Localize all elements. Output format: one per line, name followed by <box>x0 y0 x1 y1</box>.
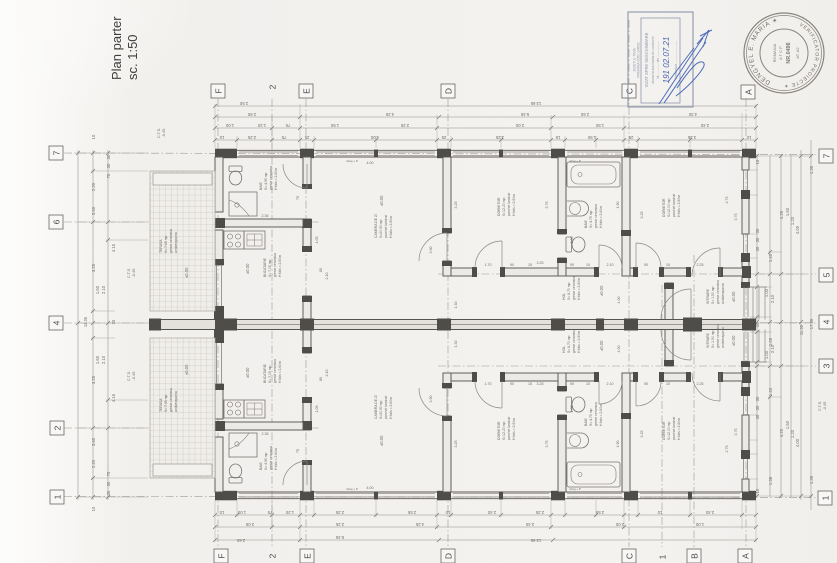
svg-text:2.55: 2.55 <box>407 510 416 515</box>
svg-text:2.25: 2.25 <box>247 135 256 140</box>
svg-text:2.25: 2.25 <box>335 522 344 527</box>
door bath2 <box>599 245 622 268</box>
shower bath1 <box>229 192 257 216</box>
svg-text:2.35: 2.35 <box>262 214 269 218</box>
svg-text:1.30: 1.30 <box>454 302 458 309</box>
svg-text:2: 2 <box>267 84 277 89</box>
svg-text:H fals = 2.60m: H fals = 2.60m <box>278 255 282 277</box>
grid line 1 horizontal <box>64 497 816 498</box>
svg-text:Nr. ............ din .........: Nr. ............ din .................. <box>656 41 660 79</box>
svg-text:gresie ceramica: gresie ceramica <box>594 402 598 426</box>
grid box C top <box>622 84 636 98</box>
svg-text:S= 8.70 mp: S= 8.70 mp <box>567 282 571 300</box>
svg-text:A T C P: A T C P <box>778 46 783 60</box>
wall right exterior <box>741 157 750 288</box>
svg-text:H fals = 2.60m: H fals = 2.60m <box>599 206 603 228</box>
grid label 1 bottom <box>657 554 667 559</box>
interior dimension figures top unit <box>262 159 739 309</box>
title Plan parter <box>109 16 140 80</box>
label dormitor1 bottom <box>497 417 516 440</box>
svg-text:parchet laminat: parchet laminat <box>672 417 676 440</box>
door dormitor1 <box>475 241 502 268</box>
svg-text:10: 10 <box>219 510 224 515</box>
svg-text:10: 10 <box>445 510 450 515</box>
svg-text:antiderapanta: antiderapanta <box>174 391 178 412</box>
svg-text:2.90: 2.90 <box>247 112 256 117</box>
svg-text:10: 10 <box>91 506 96 511</box>
svg-text:2: 2 <box>52 425 62 430</box>
svg-text:-0.45: -0.45 <box>132 372 136 381</box>
svg-text:H fals = 2.60m: H fals = 2.60m <box>677 195 681 217</box>
dimension line top overall <box>215 105 756 107</box>
svg-text:1.70: 1.70 <box>485 382 492 386</box>
svg-text:2.50: 2.50 <box>239 101 248 106</box>
svg-text:Anexa la autorizatia de constr: Anexa la autorizatia de construire <box>651 36 655 84</box>
svg-text:vitraj + P: vitraj + P <box>569 159 581 163</box>
svg-text:25: 25 <box>628 135 633 140</box>
grid box D top <box>441 84 455 98</box>
svg-text:CAMERA DE ZI: CAMERA DE ZI <box>374 214 378 238</box>
label dormitor2 top <box>662 194 681 217</box>
dim texts bottom row1 <box>219 510 714 515</box>
svg-text:4.30: 4.30 <box>688 112 697 117</box>
svg-text:2.75: 2.75 <box>725 197 729 204</box>
dimension slash ticks bottom <box>213 513 758 542</box>
grid box A top <box>741 85 755 99</box>
unit mirrored bottom <box>150 330 767 501</box>
svg-text:H fals = 2.60m: H fals = 2.60m <box>577 331 581 353</box>
dimension ticks left <box>76 153 148 497</box>
dim texts top row4 <box>219 135 751 140</box>
svg-text:S=12.00 mp: S=12.00 mp <box>667 199 671 217</box>
grid line 7 horizontal <box>64 153 816 155</box>
svg-text:3.75: 3.75 <box>734 429 738 436</box>
door bath1 <box>283 164 307 188</box>
svg-text:1.40: 1.40 <box>768 253 773 262</box>
svg-text:2.40: 2.40 <box>700 123 709 128</box>
svg-text:1.20: 1.20 <box>285 510 294 515</box>
svg-text:3.75: 3.75 <box>545 441 549 448</box>
svg-text:1.20: 1.20 <box>790 429 795 438</box>
svg-text:S= 1.50 mp: S= 1.50 mp <box>711 286 715 304</box>
svg-text:30: 30 <box>106 154 111 159</box>
svg-text:2: 2 <box>267 553 277 558</box>
grid label 2 bottom <box>267 553 277 558</box>
svg-text:1.00: 1.00 <box>225 123 234 128</box>
svg-text:1.00: 1.00 <box>695 522 704 527</box>
svg-text:parchet laminat: parchet laminat <box>507 417 511 440</box>
label baie2 top <box>584 204 603 228</box>
svg-text:75: 75 <box>296 196 300 200</box>
label hol top <box>562 276 604 300</box>
svg-text:C: C <box>624 88 634 94</box>
grid box A bottom <box>738 549 752 563</box>
label hol bottom <box>562 329 604 353</box>
handwriting date <box>662 37 671 84</box>
grid label 2 top <box>267 84 277 89</box>
dimension ticks bottom <box>215 500 756 542</box>
svg-text:7: 7 <box>821 153 831 158</box>
svg-text:BAIE: BAIE <box>259 462 263 470</box>
wall left exterior <box>214 157 224 320</box>
svg-text:2.10: 2.10 <box>325 273 329 280</box>
svg-text:TERASA: TERASA <box>159 239 163 253</box>
svg-text:1.30: 1.30 <box>454 341 458 348</box>
grid box 3 right <box>819 359 833 373</box>
C.T.S. level notes <box>127 128 827 411</box>
svg-text:1.35: 1.35 <box>809 475 814 484</box>
svg-text:1: 1 <box>657 554 667 559</box>
svg-text:C.T.S.: C.T.S. <box>157 128 161 138</box>
svg-text:2.10: 2.10 <box>101 285 106 294</box>
svg-text:10: 10 <box>746 135 751 140</box>
dimension line right col6 <box>810 140 812 510</box>
grid box F bottom <box>214 549 228 563</box>
svg-text:17.35: 17.35 <box>809 318 814 329</box>
svg-text:S= 4.75 mp: S= 4.75 mp <box>589 408 593 426</box>
toilet bath2 <box>566 237 585 252</box>
svg-text:70: 70 <box>106 471 111 476</box>
svg-text:S= 8.70 mp: S= 8.70 mp <box>567 335 571 353</box>
grid line 6 horizontal <box>64 221 320 223</box>
svg-text:gresie ceramica: gresie ceramica <box>594 204 598 228</box>
svg-text:90: 90 <box>570 382 574 386</box>
svg-text:BUCATARIE: BUCATARIE <box>263 257 267 277</box>
svg-text:10: 10 <box>666 382 670 386</box>
svg-text:Plan parter: Plan parter <box>109 16 124 80</box>
svg-text:2.10: 2.10 <box>770 294 775 303</box>
svg-text:2.10: 2.10 <box>101 355 106 364</box>
svg-text:3.60: 3.60 <box>91 206 96 215</box>
svg-text:±0.00: ±0.00 <box>379 435 384 446</box>
svg-text:DORMITOR: DORMITOR <box>497 421 501 440</box>
door dormitor2 <box>636 243 661 268</box>
grid box F top <box>211 84 225 98</box>
svg-text:vitraj + P: vitraj + P <box>569 487 581 491</box>
dimension line top row3 <box>215 127 756 129</box>
svg-text:2.50: 2.50 <box>580 112 589 117</box>
label intrare bottom <box>706 324 736 348</box>
dimension slash ticks left <box>76 151 110 499</box>
svg-text:2.35: 2.35 <box>262 432 269 436</box>
scan corner fold top-left <box>16 0 196 120</box>
terrace top <box>150 171 215 311</box>
svg-text:DORMITOR: DORMITOR <box>662 198 666 217</box>
dimension line top row2 <box>215 116 756 118</box>
dimension line right col4 <box>790 155 792 497</box>
grid box 6 left <box>49 215 63 229</box>
svg-text:antiderapanta: antiderapanta <box>721 283 725 304</box>
svg-text:-0.45: -0.45 <box>162 129 166 138</box>
svg-text:H fals = 2.60m: H fals = 2.60m <box>577 278 581 300</box>
svg-text:S= 4.75 mp: S= 4.75 mp <box>589 210 593 228</box>
svg-text:antiderapanta: antiderapanta <box>721 327 725 348</box>
svg-text:80: 80 <box>319 268 323 272</box>
svg-text:±0.00: ±0.00 <box>731 291 736 302</box>
svg-text:30: 30 <box>755 414 760 419</box>
svg-text:3.25: 3.25 <box>91 375 96 384</box>
svg-text:S=20.90 mp: S=20.90 mp <box>379 220 383 238</box>
svg-text:1.90: 1.90 <box>616 202 620 209</box>
svg-text:2.25: 2.25 <box>535 510 544 515</box>
floor plan <box>149 149 767 501</box>
dim texts bottom row2 <box>245 522 704 527</box>
scan left margin <box>0 0 16 563</box>
svg-text:11.35: 11.35 <box>83 316 88 327</box>
svg-text:30: 30 <box>755 246 760 251</box>
svg-text:gresie ceramica: gresie ceramica <box>269 166 273 190</box>
grid box 4 left <box>49 316 63 330</box>
svg-text:D: D <box>443 88 453 94</box>
svg-text:3.60: 3.60 <box>91 437 96 446</box>
svg-text:BAIE: BAIE <box>584 418 588 426</box>
svg-text:3.25: 3.25 <box>537 261 544 265</box>
svg-text:gresie ceramica: gresie ceramica <box>572 329 576 353</box>
svg-text:2.25: 2.25 <box>697 382 704 386</box>
svg-text:3.25: 3.25 <box>640 212 644 219</box>
svg-text:BAIE: BAIE <box>259 182 263 190</box>
svg-text:H fals = 2.60m: H fals = 2.60m <box>677 418 681 440</box>
dim texts bottom row3 <box>236 535 541 543</box>
grid line A vertical <box>745 99 747 547</box>
svg-text:3.25: 3.25 <box>454 202 458 209</box>
door living <box>419 233 447 261</box>
grid line 1 vertical <box>661 285 663 547</box>
svg-text:S= 7.65 mp: S= 7.65 mp <box>164 394 168 412</box>
svg-text:2.00: 2.00 <box>515 123 524 128</box>
grid line 3 horizontal (right) <box>438 365 816 367</box>
svg-text:±0.00: ±0.00 <box>599 285 604 296</box>
svg-text:S=20.90 mp: S=20.90 mp <box>379 401 383 419</box>
svg-text:±0.00: ±0.00 <box>184 267 189 278</box>
svg-text:3.90: 3.90 <box>429 247 433 254</box>
svg-text:4.25: 4.25 <box>385 112 394 117</box>
grid box 1 right <box>818 491 832 505</box>
stamp rectangular municipal <box>628 12 693 107</box>
svg-text:90: 90 <box>644 263 648 267</box>
label bucatarie top <box>245 253 282 277</box>
door hall-vestibule <box>692 248 720 276</box>
svg-text:H fals = 2.60m: H fals = 2.60m <box>274 448 278 470</box>
svg-text:±0.00: ±0.00 <box>245 263 250 274</box>
grid bubbles <box>49 84 833 563</box>
svg-text:3.25: 3.25 <box>640 431 644 438</box>
svg-text:F: F <box>216 553 226 558</box>
grid box 1 left <box>50 490 64 504</box>
steps entrance <box>749 287 767 320</box>
svg-text:10: 10 <box>755 159 760 164</box>
svg-text:C.T.S.: C.T.S. <box>818 401 822 411</box>
svg-text:1.20: 1.20 <box>790 216 795 225</box>
svg-text:3.25: 3.25 <box>454 441 458 448</box>
svg-text:1.05: 1.05 <box>570 237 574 244</box>
grid line B vertical <box>693 255 695 547</box>
bathtub bath2 <box>567 162 620 187</box>
svg-text:BUCATARIE: BUCATARIE <box>263 363 267 383</box>
grid line D vertical <box>447 99 449 547</box>
svg-text:antiderapanta: antiderapanta <box>174 232 178 253</box>
grid box C bottom <box>622 549 636 563</box>
svg-text:13.65: 13.65 <box>530 538 541 543</box>
svg-text:4.25: 4.25 <box>415 522 424 527</box>
svg-text:gresie ceramica: gresie ceramica <box>169 388 173 412</box>
grid line 4 horizontal <box>64 322 816 324</box>
svg-text:PRIMARIA COM. GIROC: PRIMARIA COM. GIROC <box>637 41 641 77</box>
svg-text:4: 4 <box>51 320 61 325</box>
svg-text:6: 6 <box>51 219 61 224</box>
grid box 4 right <box>819 315 833 329</box>
dimension line left col3 <box>107 150 109 500</box>
wall bath1 bottom <box>215 218 303 228</box>
dimension ticks right <box>750 156 813 496</box>
svg-text:F: F <box>213 88 223 93</box>
label dormitor1 top <box>497 193 516 216</box>
svg-text:gresie ceramica: gresie ceramica <box>273 359 277 383</box>
svg-text:1: 1 <box>52 494 62 499</box>
svg-text:-0.45: -0.45 <box>823 402 827 411</box>
svg-text:1.90: 1.90 <box>616 441 620 448</box>
svg-text:1.20: 1.20 <box>257 123 266 128</box>
dimension line left col1 <box>77 150 79 500</box>
svg-text:E: E <box>302 553 312 559</box>
svg-text:2.10: 2.10 <box>770 344 775 353</box>
svg-text:4.15: 4.15 <box>111 393 116 402</box>
svg-text:2.25: 2.25 <box>400 123 409 128</box>
svg-text:10: 10 <box>666 263 670 267</box>
stamp round notary <box>744 13 824 93</box>
dimension line bottom row1 <box>215 514 756 516</box>
dimension line top row4 <box>215 139 756 141</box>
svg-text:5.45: 5.45 <box>335 535 344 540</box>
svg-text:25: 25 <box>111 319 116 324</box>
grid box D bottom <box>441 549 455 563</box>
svg-text:10: 10 <box>91 134 96 139</box>
svg-text:10: 10 <box>219 135 224 140</box>
svg-text:2.10: 2.10 <box>325 370 329 377</box>
svg-text:HOL: HOL <box>562 293 566 300</box>
dimension bands <box>76 104 813 542</box>
dimension line right col3 <box>780 155 782 497</box>
svg-text:B: B <box>689 553 699 559</box>
kitchen stove <box>224 231 244 249</box>
wall vestibule left <box>664 283 674 320</box>
dimension line right col5 <box>800 150 802 500</box>
kitchen sink counter <box>244 231 265 249</box>
svg-text:D: D <box>443 553 453 559</box>
svg-text:4.00: 4.00 <box>795 225 800 234</box>
svg-text:H fals = 2.60m: H fals = 2.60m <box>599 404 603 426</box>
svg-text:75: 75 <box>296 449 300 453</box>
svg-text:25: 25 <box>304 135 309 140</box>
svg-text:1.05: 1.05 <box>315 237 319 244</box>
svg-text:±0.00: ±0.00 <box>379 195 384 206</box>
stamps <box>628 12 824 107</box>
svg-text:ROMANIA: ROMANIA <box>772 43 777 62</box>
label bucatarie bottom <box>245 359 282 383</box>
svg-text:parchet laminat: parchet laminat <box>672 194 676 217</box>
label baie1 top <box>259 166 278 190</box>
svg-text:S= 7.05 mp: S= 7.05 mp <box>268 365 272 383</box>
svg-text:2.20: 2.20 <box>91 182 96 191</box>
label camera de zi bottom <box>374 395 393 446</box>
svg-text:10: 10 <box>657 510 662 515</box>
svg-text:2.05: 2.05 <box>245 522 254 527</box>
svg-text:3.25: 3.25 <box>495 135 504 140</box>
svg-text:gresie ceramica: gresie ceramica <box>169 229 173 253</box>
svg-text:sc. 1:50: sc. 1:50 <box>125 34 140 80</box>
svg-text:3.90: 3.90 <box>429 396 433 403</box>
svg-text:191 02.07.21: 191 02.07.21 <box>662 37 671 84</box>
svg-text:70: 70 <box>106 173 111 178</box>
svg-text:15: 15 <box>528 263 532 267</box>
svg-text:13.65: 13.65 <box>530 101 541 106</box>
svg-text:1.05: 1.05 <box>315 406 319 413</box>
wall bath1 right <box>302 157 312 320</box>
dim texts top row2 <box>247 112 697 117</box>
svg-text:30: 30 <box>755 228 760 233</box>
svg-text:90: 90 <box>570 263 574 267</box>
svg-text:C.T.S.: C.T.S. <box>127 268 131 278</box>
svg-text:3.75: 3.75 <box>734 214 738 221</box>
svg-text:15: 15 <box>555 135 560 140</box>
signature blue <box>659 30 712 104</box>
svg-text:S=12.00 mp: S=12.00 mp <box>667 422 671 440</box>
svg-text:7: 7 <box>51 150 61 155</box>
svg-text:15: 15 <box>528 382 532 386</box>
svg-text:1.90: 1.90 <box>587 135 596 140</box>
svg-text:2.40: 2.40 <box>525 522 534 527</box>
svg-text:4.00: 4.00 <box>617 297 621 304</box>
svg-text:1.05: 1.05 <box>570 406 574 413</box>
svg-text:4.25: 4.25 <box>779 210 784 219</box>
dim texts top row3 <box>225 123 709 128</box>
svg-text:gresie ceramica: gresie ceramica <box>269 446 273 470</box>
svg-text:S= 4.95 mp: S= 4.95 mp <box>264 172 268 190</box>
label intrare top <box>706 280 736 304</box>
svg-text:3.25: 3.25 <box>537 382 544 386</box>
svg-text:10: 10 <box>586 382 590 386</box>
svg-text:80: 80 <box>319 377 323 381</box>
svg-text:±0.00: ±0.00 <box>245 367 250 378</box>
svg-text:A: A <box>743 89 753 95</box>
svg-text:2.60: 2.60 <box>236 538 245 543</box>
svg-text:1.40: 1.40 <box>768 387 773 396</box>
svg-text:HOL: HOL <box>562 346 566 353</box>
svg-text:INTRARE: INTRARE <box>706 332 710 348</box>
svg-text:10: 10 <box>586 263 590 267</box>
svg-text:E: E <box>301 88 311 94</box>
dim text 13.65 top <box>239 101 541 106</box>
wall bath2 right <box>621 157 631 276</box>
dimension slash ticks top <box>213 104 758 142</box>
svg-text:4.25: 4.25 <box>779 428 784 437</box>
svg-text:2.10: 2.10 <box>607 263 614 267</box>
svg-text:30: 30 <box>755 405 760 410</box>
svg-text:-0.45: -0.45 <box>132 269 136 278</box>
svg-text:30: 30 <box>106 481 111 486</box>
tiny dimension figures <box>83 101 827 543</box>
svg-text:2.25: 2.25 <box>697 263 704 267</box>
svg-text:2.10: 2.10 <box>607 382 614 386</box>
svg-text:2.20: 2.20 <box>91 459 96 468</box>
wall top exterior band <box>215 150 756 157</box>
dim texts left column <box>83 134 116 511</box>
svg-text:75: 75 <box>281 135 286 140</box>
grid line 2 vertical <box>271 99 273 547</box>
svg-text:BAIE: BAIE <box>584 220 588 228</box>
svg-text:S= 7.65 mp: S= 7.65 mp <box>164 235 168 253</box>
wall hall top <box>451 266 751 278</box>
